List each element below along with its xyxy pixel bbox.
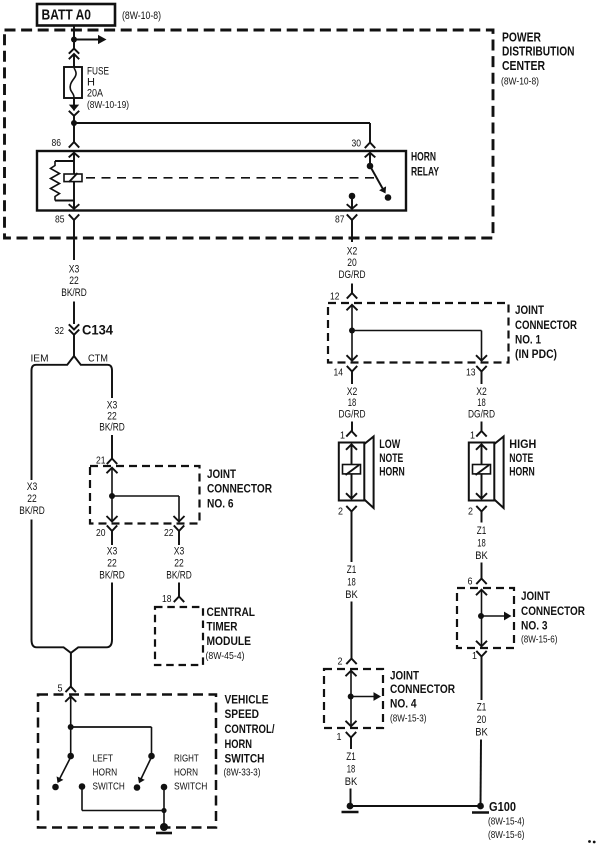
svg-text:SWITCH: SWITCH bbox=[93, 780, 125, 792]
svg-text:85: 85 bbox=[55, 214, 65, 226]
svg-text:CONNECTOR: CONNECTOR bbox=[521, 604, 585, 618]
svg-text:12: 12 bbox=[330, 291, 340, 303]
svg-text:BK: BK bbox=[475, 550, 488, 562]
svg-text:18: 18 bbox=[348, 397, 357, 409]
svg-text:20: 20 bbox=[96, 527, 106, 539]
svg-text:(8W-15-6): (8W-15-6) bbox=[521, 634, 558, 646]
svg-text:NOTE: NOTE bbox=[509, 451, 533, 465]
svg-text:JOINT: JOINT bbox=[207, 467, 237, 481]
svg-text:G100: G100 bbox=[489, 800, 516, 814]
svg-text:22: 22 bbox=[174, 558, 184, 570]
svg-text:(8W-10-8): (8W-10-8) bbox=[501, 76, 539, 88]
svg-text:HORN: HORN bbox=[379, 465, 405, 479]
svg-text:NOTE: NOTE bbox=[379, 451, 403, 465]
svg-text:5: 5 bbox=[58, 683, 63, 695]
svg-text:2: 2 bbox=[338, 656, 343, 668]
svg-text:SWITCH: SWITCH bbox=[225, 752, 265, 766]
svg-text:C134: C134 bbox=[82, 323, 113, 338]
svg-text:FUSE: FUSE bbox=[87, 66, 109, 78]
svg-text:RELAY: RELAY bbox=[411, 165, 439, 179]
svg-text:18: 18 bbox=[347, 577, 356, 589]
svg-text:BK/RD: BK/RD bbox=[99, 422, 125, 434]
svg-text:HORN: HORN bbox=[509, 465, 535, 479]
svg-text:(8W-15-6): (8W-15-6) bbox=[488, 829, 525, 841]
svg-text:22: 22 bbox=[69, 275, 79, 287]
svg-text:NO. 3: NO. 3 bbox=[521, 619, 548, 633]
svg-text:(8W-10-19): (8W-10-19) bbox=[87, 99, 129, 111]
svg-text:(8W-45-4): (8W-45-4) bbox=[206, 650, 245, 662]
svg-text:BK: BK bbox=[475, 727, 488, 739]
svg-text:IEM: IEM bbox=[31, 353, 49, 365]
svg-text:NO. 4: NO. 4 bbox=[390, 697, 417, 711]
svg-text:LOW: LOW bbox=[379, 437, 400, 451]
svg-text:BK/RD: BK/RD bbox=[99, 570, 125, 582]
svg-text:SWITCH: SWITCH bbox=[174, 780, 207, 792]
svg-text:6: 6 bbox=[468, 576, 473, 588]
svg-text:87: 87 bbox=[335, 214, 345, 226]
svg-text:CTM: CTM bbox=[88, 353, 108, 365]
svg-text:CENTRAL: CENTRAL bbox=[207, 605, 256, 619]
svg-text:DISTRIBUTION: DISTRIBUTION bbox=[502, 44, 575, 59]
svg-text:MODULE: MODULE bbox=[207, 634, 252, 648]
svg-text:21: 21 bbox=[96, 455, 106, 467]
svg-text:DG/RD: DG/RD bbox=[339, 408, 366, 420]
svg-text:POWER: POWER bbox=[502, 30, 541, 45]
svg-text:32: 32 bbox=[55, 325, 65, 337]
svg-text:2: 2 bbox=[338, 506, 343, 518]
svg-text:20: 20 bbox=[347, 257, 357, 269]
svg-text:1: 1 bbox=[340, 430, 345, 442]
svg-text:1: 1 bbox=[337, 731, 342, 743]
svg-text:18: 18 bbox=[347, 764, 356, 776]
svg-text:14: 14 bbox=[334, 367, 344, 379]
svg-text:X2: X2 bbox=[347, 386, 358, 398]
svg-text:JOINT: JOINT bbox=[515, 303, 545, 317]
svg-text:X2: X2 bbox=[347, 246, 358, 258]
svg-text:X3: X3 bbox=[107, 546, 118, 558]
svg-text:(8W-33-3): (8W-33-3) bbox=[224, 767, 261, 779]
svg-text:Z1: Z1 bbox=[346, 751, 356, 763]
svg-text:22: 22 bbox=[107, 411, 117, 423]
svg-text:HORN: HORN bbox=[93, 766, 118, 778]
svg-text:CONNECTOR: CONNECTOR bbox=[515, 318, 577, 332]
svg-text:CONNECTOR: CONNECTOR bbox=[390, 682, 455, 696]
svg-text:VEHICLE: VEHICLE bbox=[225, 692, 269, 706]
svg-text:X2: X2 bbox=[476, 386, 487, 398]
svg-text:DG/RD: DG/RD bbox=[339, 269, 366, 281]
svg-text:JOINT: JOINT bbox=[521, 589, 551, 603]
svg-text:HORN: HORN bbox=[174, 766, 198, 778]
svg-text:20A: 20A bbox=[87, 88, 104, 100]
svg-text:(8W-15-4): (8W-15-4) bbox=[488, 816, 525, 828]
svg-text:JOINT: JOINT bbox=[390, 668, 420, 682]
svg-text:(8W-15-3): (8W-15-3) bbox=[390, 713, 427, 725]
svg-text:22: 22 bbox=[164, 527, 174, 539]
svg-text:Z1: Z1 bbox=[477, 702, 487, 714]
svg-text:BK/RD: BK/RD bbox=[19, 505, 45, 517]
svg-text:22: 22 bbox=[107, 558, 117, 570]
svg-text:SPEED: SPEED bbox=[225, 707, 260, 721]
svg-text:X3: X3 bbox=[27, 481, 38, 493]
svg-text:BK: BK bbox=[345, 776, 358, 788]
svg-text:RIGHT: RIGHT bbox=[174, 752, 199, 764]
svg-text:BATT A0: BATT A0 bbox=[42, 8, 92, 24]
svg-text:86: 86 bbox=[52, 137, 62, 149]
svg-text:Z1: Z1 bbox=[347, 564, 357, 576]
svg-text:(8W-10-8): (8W-10-8) bbox=[122, 10, 161, 22]
svg-text:CENTER: CENTER bbox=[502, 58, 545, 73]
svg-text:X3: X3 bbox=[107, 399, 118, 411]
svg-text:HORN: HORN bbox=[225, 737, 253, 751]
svg-text:13: 13 bbox=[466, 367, 476, 379]
svg-text:HIGH: HIGH bbox=[509, 437, 536, 451]
svg-text:DG/RD: DG/RD bbox=[468, 408, 495, 420]
svg-text:BK/RD: BK/RD bbox=[166, 570, 192, 582]
svg-text:HORN: HORN bbox=[411, 150, 436, 164]
svg-text:NO. 1: NO. 1 bbox=[515, 333, 541, 347]
svg-text:Z1: Z1 bbox=[477, 525, 487, 537]
svg-text:30: 30 bbox=[352, 138, 362, 150]
svg-text:2: 2 bbox=[468, 506, 473, 518]
svg-text:CONNECTOR: CONNECTOR bbox=[207, 482, 272, 496]
svg-text:NO. 6: NO. 6 bbox=[207, 496, 234, 510]
svg-text:TIMER: TIMER bbox=[207, 620, 238, 634]
svg-text:LEFT: LEFT bbox=[93, 752, 114, 764]
svg-text:20: 20 bbox=[477, 714, 487, 726]
svg-text:1: 1 bbox=[470, 430, 475, 442]
svg-text:BK: BK bbox=[345, 589, 358, 601]
svg-text:18: 18 bbox=[477, 397, 486, 409]
svg-text:22: 22 bbox=[27, 493, 37, 505]
svg-text:CONTROL/: CONTROL/ bbox=[225, 722, 276, 736]
svg-text:X3: X3 bbox=[69, 264, 80, 276]
svg-text:BK/RD: BK/RD bbox=[61, 287, 87, 299]
svg-text:(IN PDC): (IN PDC) bbox=[515, 347, 557, 361]
svg-text:18: 18 bbox=[162, 593, 172, 605]
svg-text:18: 18 bbox=[477, 538, 486, 550]
svg-text:X3: X3 bbox=[174, 546, 185, 558]
